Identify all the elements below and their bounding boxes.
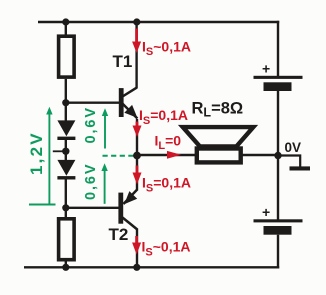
wire midpoint stub [53,150,66,152]
wire 0V node to battery B2 [277,156,279,220]
node T1 base junction [62,99,69,106]
current arrow Is T1 emitter [133,122,142,138]
current arrow Is T2 emitter [133,166,142,185]
wire T1 collector [135,22,137,88]
wire bottom rail [24,266,279,268]
node top-left junction [62,18,69,25]
resistor R1 [59,36,75,77]
speaker RL [183,127,254,162]
voltage arrow 0,6V upper [102,108,108,148]
node T2 base junction [62,204,69,211]
wire top rail [38,21,279,23]
current arrow IL [167,151,181,159]
battery B2 [254,204,303,235]
svg-text:RL=8Ω: RL=8Ω [192,100,244,120]
transistor T1 [119,87,138,118]
svg-text:+: + [262,204,270,220]
wire right rail upper [277,21,279,76]
svg-text:0V: 0V [285,140,302,155]
current arrow Is bottom [132,236,141,255]
diode D1 [57,120,75,140]
wire output to speaker [137,154,196,156]
svg-text:T2: T2 [109,225,129,244]
svg-text:0,6V: 0,6V [83,163,99,200]
node bottom-center junction [133,264,140,271]
svg-text:0,6V: 0,6V [83,106,99,143]
svg-text:1,2V: 1,2V [27,131,46,175]
wire left rail to R1 [65,22,67,36]
battery B1 [254,61,303,92]
wire T1 base [66,101,120,103]
wire battery B1 to 0V node [277,91,279,156]
resistor R2 [59,219,75,260]
voltage arrow 0,6V lower [101,163,107,204]
diode D2 [57,160,75,180]
wire T2 collector down [136,229,138,268]
svg-text:T1: T1 [113,52,133,71]
voltage arrow 1,2V [29,107,56,205]
wire T1 emitter down [136,119,138,156]
node bottom-left junction [62,264,69,271]
svg-text:+: + [262,61,270,77]
current arrow Is top [132,29,141,54]
measurement dashed line midpoint [103,155,135,157]
transistor T2 [118,190,137,230]
wire T2 emitter down [136,156,138,191]
wire D2 to T2 base node [65,178,67,218]
wire T2 base [66,207,119,209]
wire speaker to 0V node [240,154,278,156]
ground [278,156,310,171]
node output junction [133,152,141,160]
wire R1 to diode D1 [65,79,67,122]
wire R2 to bottom rail [65,261,67,267]
wire D1 to D2 [65,138,67,161]
wire battery B2 to bottom rail [277,235,279,269]
node top-center junction [133,18,140,25]
node diode midpoint junction [62,148,69,155]
node 0V junction [274,152,281,159]
